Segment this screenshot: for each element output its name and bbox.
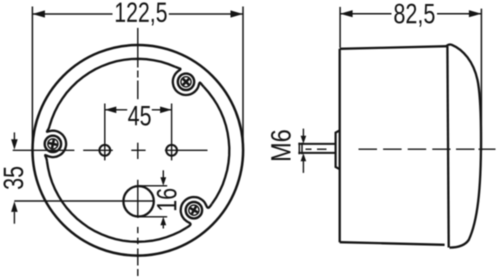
side view body outline — [340, 46, 448, 49]
outer circle (lamp body front view) — [33, 45, 244, 256]
dimension 122,5 extension lines — [31, 7, 33, 150]
dimension text M6 (rotated) — [271, 130, 291, 160]
dimension text 122,5 — [116, 2, 167, 25]
dimension 35 — [13, 132, 15, 140]
M6 dimension arrows — [302, 129, 304, 137]
dimension 45 line — [105, 109, 127, 111]
horizontal centerline (front view) — [13, 149, 75, 151]
dimension 82,5 extension lines — [339, 7, 341, 48]
vertical centerline (front view) — [137, 28, 139, 68]
side view dashed centerline — [306, 148, 312, 150]
dimension 82,5 line — [340, 13, 391, 15]
dimension text 82,5 — [394, 4, 434, 27]
mounting hole right — [166, 145, 177, 156]
stud end marks — [298, 143, 300, 155]
inner rim with screw pockets — [50, 59, 176, 126]
dimension 122,5 line — [32, 13, 112, 15]
screw 2 — [45, 136, 61, 152]
dimension text 35 (rotated) — [3, 167, 23, 189]
mounting hole left — [99, 145, 110, 156]
mounting boss bracket — [336, 130, 340, 169]
dimension text 45 — [128, 106, 150, 126]
hole D16 — [123, 186, 153, 216]
lens profile — [446, 44, 481, 247]
dimension 16 arrows — [162, 170, 164, 178]
dimension text 16 (rotated) — [157, 189, 177, 210]
hole D16 horizontal centerline — [14, 200, 154, 202]
lens separation line — [447, 46, 448, 247]
screw 3 — [186, 202, 202, 218]
screw 1 — [178, 74, 194, 90]
dimension 16 ticks — [139, 185, 168, 187]
hole vertical extension lines (45 dim) — [104, 104, 106, 161]
M6 threaded stud — [298, 143, 335, 145]
